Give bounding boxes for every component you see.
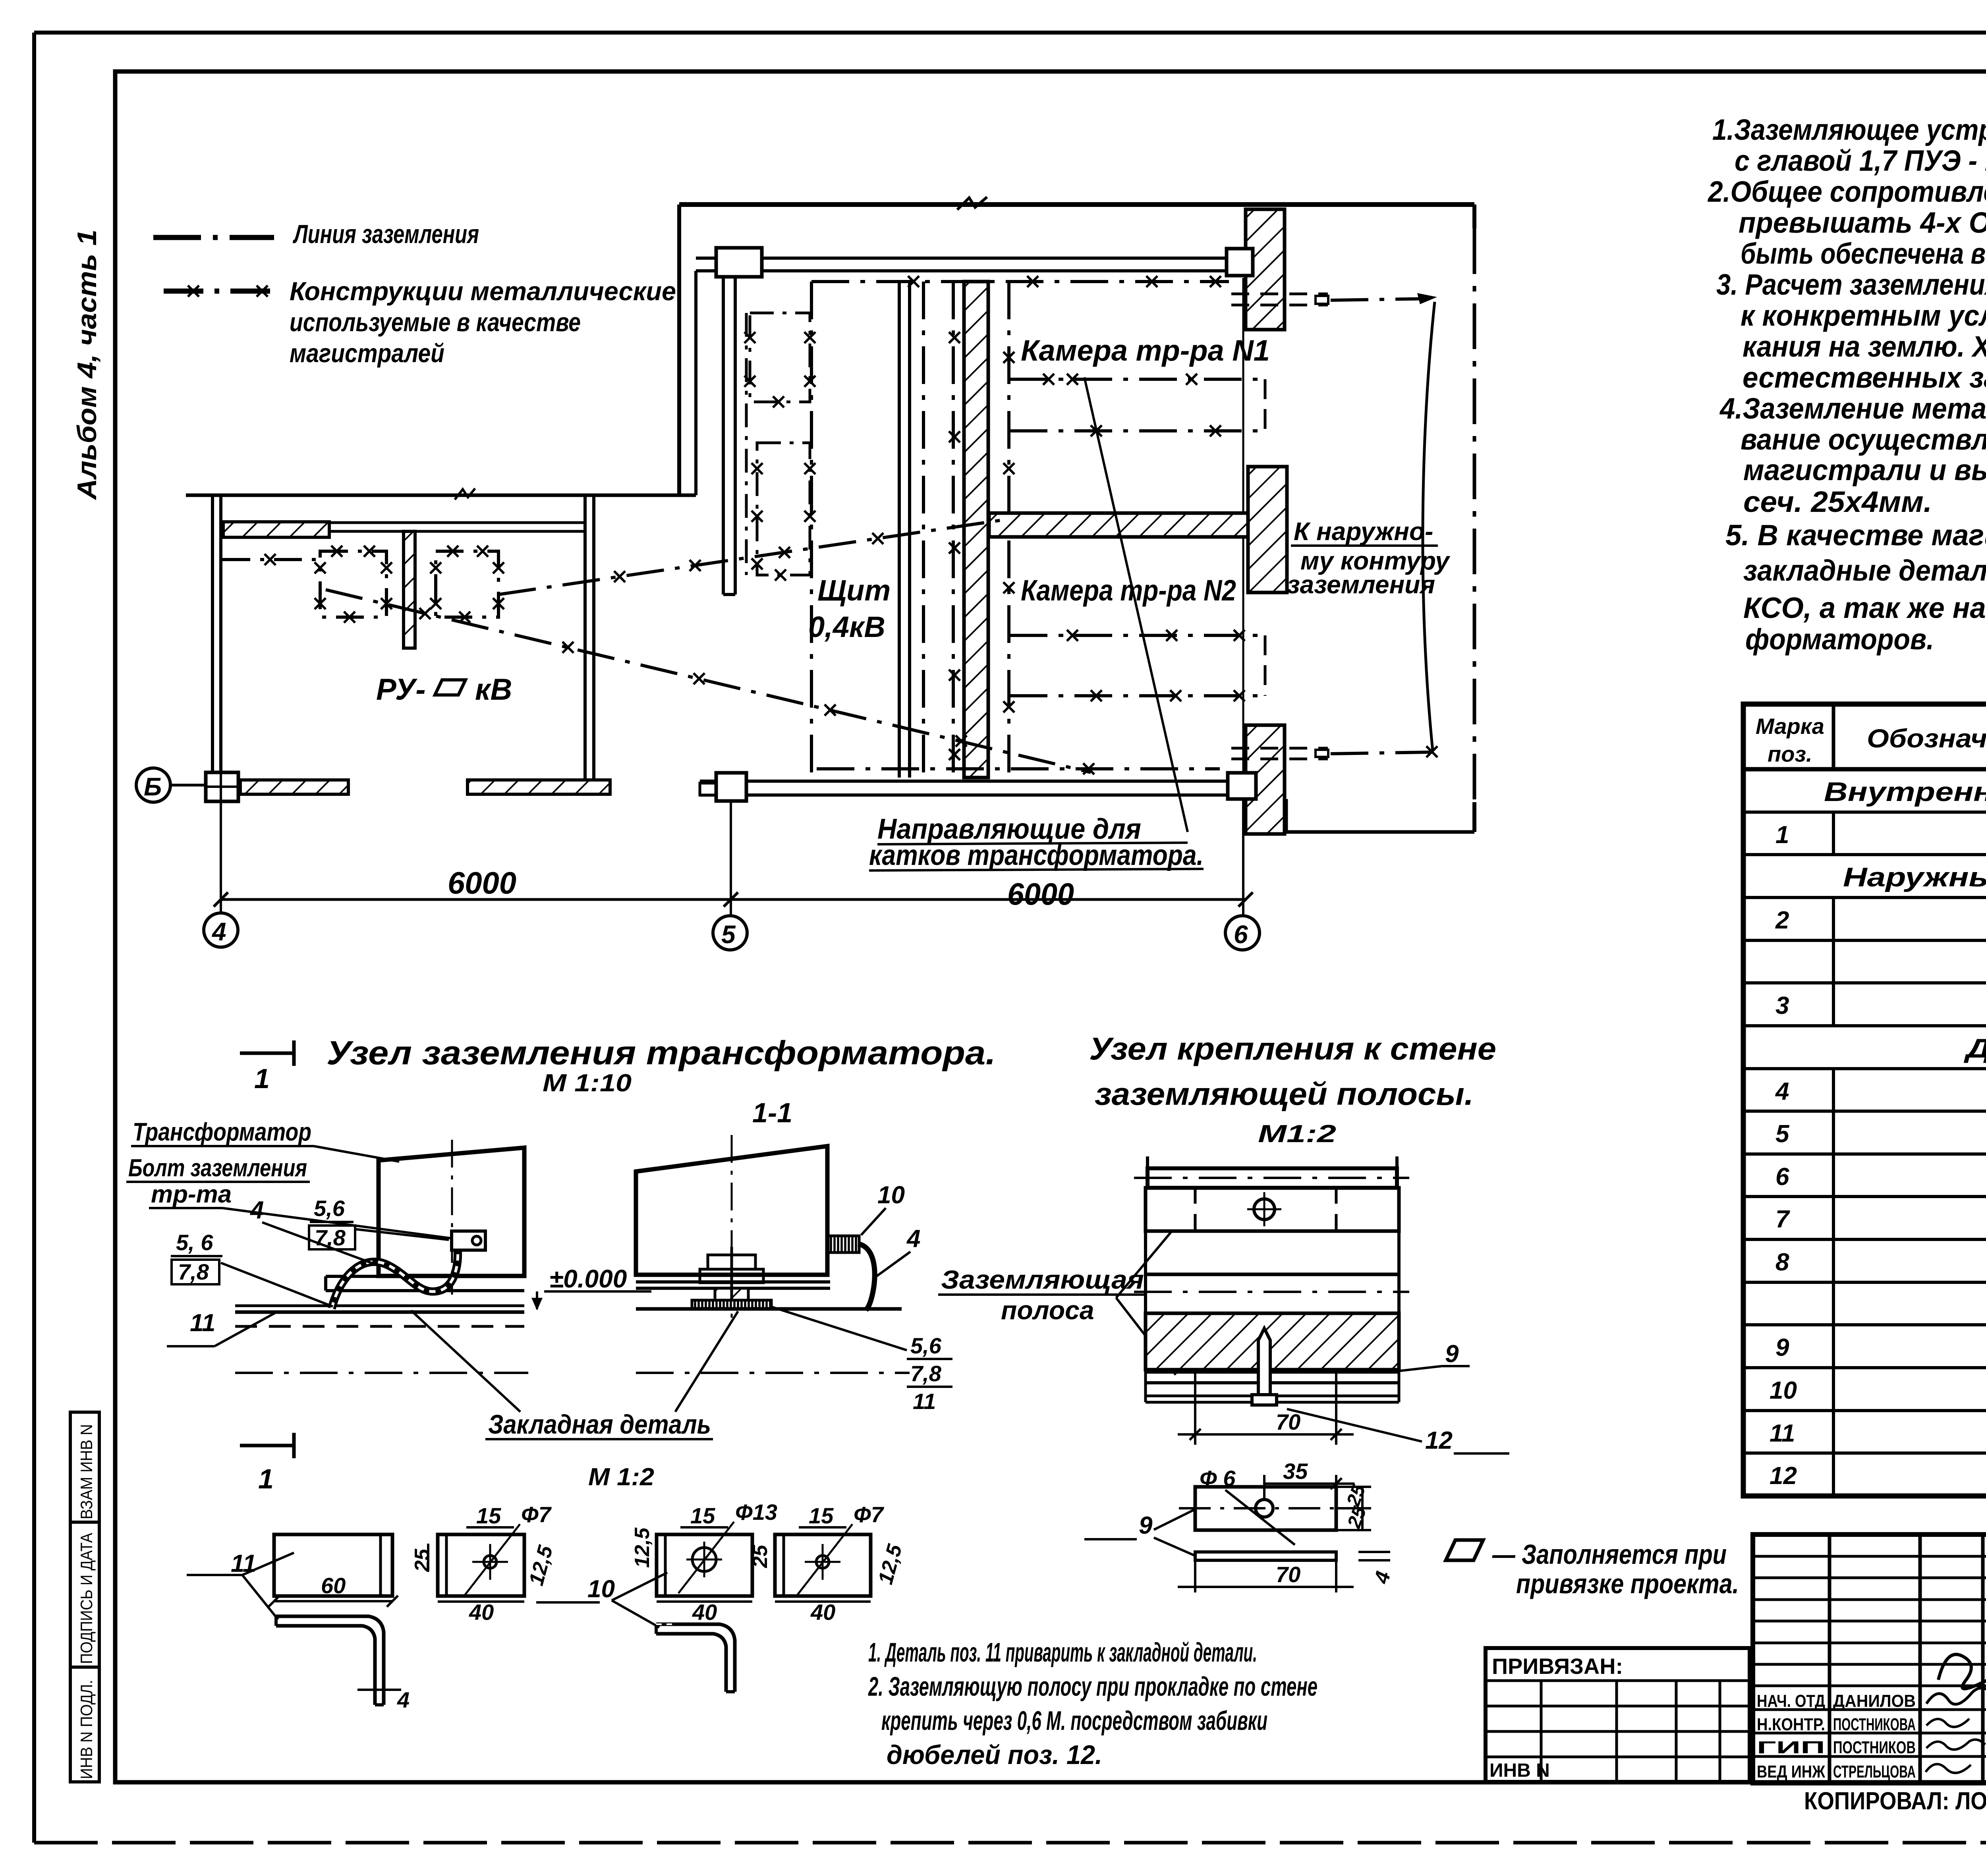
axis 4 line [220,801,222,913]
anchor assembly [692,1247,771,1310]
left room center hatched column [404,531,415,648]
svg-text:используемые в качестве: используемые в качестве [290,307,581,337]
dim 70 upper [1194,1372,1196,1445]
svg-text:сеч. 25х4мм.: сеч. 25х4мм. [1743,485,1932,518]
transformer body left [379,1148,524,1276]
fill-in legend symbol [1446,1540,1483,1560]
pilaster axis5 bottom [716,773,746,801]
svg-text:11: 11 [190,1309,215,1337]
left room top wall [186,494,696,497]
RU cell 2 dashed [436,551,498,617]
svg-text:к конкретным условиям с учетом: к конкретным условиям с учетом данных о … [1741,299,1986,332]
svg-text:5,6: 5,6 [314,1196,345,1221]
svg-text:6: 6 [1775,1163,1789,1191]
svg-text:М 1:10: М 1:10 [543,1069,632,1097]
svg-text:Узел крепления к стене: Узел крепления к стене [1089,1031,1496,1066]
svg-text:0,4кВ: 0,4кВ [808,610,885,643]
left room left wall [211,495,214,772]
section mark bottom [240,1444,294,1448]
svg-text:СТРЕЛЬЦОВА: СТРЕЛЬЦОВА [1833,1762,1916,1781]
svg-text:15: 15 [809,1503,834,1528]
axis B bubble [136,768,170,802]
transformer body section [636,1146,827,1275]
svg-text:15: 15 [476,1503,501,1528]
dim 70 lower [1194,1560,1196,1592]
top branch dashed pair [1231,293,1328,295]
svg-text:превышать 4-х Ом. Требуемое со: превышать 4-х Ом. Требуемое сопротивлени… [1739,206,1986,239]
part11 plate [274,1534,392,1596]
svg-text:с главой 1,7 ПУЭ - 1985г.: с главой 1,7 ПУЭ - 1985г. [1735,144,1986,177]
grounding line along bottom wall [817,767,1220,770]
margin strip [70,1412,99,1782]
wall top interior [696,257,1227,260]
RU cell 1 dashed [320,551,386,617]
svg-text:7: 7 [1775,1206,1790,1233]
connector to outer contour [1423,302,1435,751]
big signature [1938,1654,1986,1689]
embedded strip dashed [235,1325,524,1328]
part10 bent strap [656,1624,735,1692]
svg-text:4: 4 [249,1197,264,1224]
svg-text:12: 12 [1770,1462,1797,1490]
svg-text:1.Заземляющее устройство выпол: 1.Заземляющее устройство выполняется в с… [1712,113,1986,146]
svg-text:Щит: Щит [817,574,891,607]
schit room left dashdot [810,282,813,778]
svg-text:поз.: поз. [1768,741,1812,766]
svg-text:4: 4 [1775,1078,1789,1105]
svg-text:М 1:2: М 1:2 [588,1463,654,1491]
svg-text:10: 10 [877,1181,905,1209]
svg-text:Трансформатор: Трансформатор [133,1117,311,1146]
svg-text:12: 12 [1425,1427,1453,1454]
grounding diagonal lower [326,590,1091,772]
svg-text:ДАНИЛОВ: ДАНИЛОВ [1833,1691,1916,1711]
axis 5 line [730,801,732,916]
top branch dashdot [1331,299,1430,300]
axis B line [171,784,206,787]
left room inner top double [329,521,586,524]
svg-text:1-1: 1-1 [752,1097,792,1128]
bottom branch dashed pair [1231,747,1328,750]
pilaster axis6 top hatched [1246,209,1285,330]
svg-text:1: 1 [258,1463,274,1494]
svg-text:5,6: 5,6 [910,1333,942,1358]
wall bottom exterior double [700,780,1230,783]
grounding stub to left wall [222,558,320,561]
svg-text:Внутренний контур заземления: Внутренний контур заземления. [1824,777,1986,807]
svg-text:— Заполняется при: — Заполняется при [1492,1539,1727,1570]
axis 6 line [1242,278,1244,773]
wall stub below pilaster5 [722,277,725,594]
transformer centerline right [731,1135,733,1318]
ground surface right [636,1307,902,1311]
hatched mid pier block [1248,467,1287,593]
privyazan table [1486,1648,1750,1782]
svg-text:9: 9 [1775,1334,1789,1361]
left room hatched wall strip [223,522,329,537]
svg-text:Альбом 4, часть 1: Альбом 4, часть 1 [72,230,102,500]
part9 centerline [1179,1507,1358,1509]
svg-text:быть обеспечена в любое время: быть обеспечена в любое время года. [1741,237,1986,270]
general notes block [1707,113,1986,656]
svg-text:Болт заземления: Болт заземления [128,1154,307,1182]
svg-text:7,8: 7,8 [910,1361,942,1386]
svg-text:магистрали и выполняется полос: магистрали и выполняется полосовой сталь… [1743,454,1986,486]
svg-text:Закладная деталь: Закладная деталь [488,1409,711,1440]
break mark left room wall [455,488,475,500]
strap to floor right [858,1244,875,1310]
svg-text:1: 1 [254,1063,270,1094]
svg-text:9: 9 [1445,1340,1459,1368]
hatched partition wall vertical [964,282,988,778]
dashdot right of partition [1007,282,1010,778]
wall top exterior [679,202,1474,207]
svg-text:НАЧ. ОТД: НАЧ. ОТД [1757,1691,1825,1711]
svg-text:60: 60 [321,1573,346,1598]
svg-text:ИНВ N: ИНВ N [1489,1760,1550,1781]
legend metal structures sample [164,289,275,294]
pilaster axis6 bottom square [1228,773,1256,799]
floor centerline right [636,1372,910,1374]
svg-text:40: 40 [469,1600,494,1625]
svg-text:25: 25 [749,1544,772,1568]
outer border top [34,31,1986,35]
svg-text:4: 4 [397,1687,410,1712]
svg-text:5, 6: 5, 6 [176,1230,213,1255]
svg-text:закладные детали для установки: закладные детали для установки панелей щ… [1743,554,1986,587]
legend grounding line sample [153,235,274,240]
svg-text:7,8: 7,8 [178,1259,209,1284]
chamber1 rail bottom [1010,429,1265,432]
pilaster axis6 top square [1227,249,1253,276]
chamber2 rail bottom [1010,694,1265,697]
break mark top wall [957,197,987,210]
svg-text:форматоров.: форматоров. [1745,623,1934,656]
top bar [1148,1168,1397,1188]
wall bottom stub left [700,783,718,795]
section mark top [240,1052,294,1055]
svg-text:11: 11 [1770,1420,1795,1447]
svg-text:1. Деталь поз. 11 приварить к: 1. Деталь поз. 11 приварить к закладной … [868,1637,1257,1668]
svg-text:Ф7: Ф7 [854,1502,885,1527]
svg-text:6000: 6000 [1007,876,1074,911]
svg-text:полоса: полоса [1001,1295,1094,1325]
svg-text:40: 40 [810,1600,835,1625]
svg-text:ГИП: ГИП [1757,1738,1825,1757]
base bar right [636,1280,830,1283]
part11 bent strap [276,1616,384,1705]
panel connecting dashdot [745,313,748,575]
svg-text:Конструкции металлические: Конструкции металлические [290,276,676,306]
svg-text:Узел заземления трансформатора: Узел заземления трансформатора. [326,1034,996,1071]
svg-text:Ф13: Ф13 [735,1500,777,1525]
left room bottom hatched strip west [240,780,348,794]
panel box dashed lower [757,443,810,575]
part9 hole [1256,1500,1273,1517]
svg-text:КСО, а так же направляющие для: КСО, а так же направляющие для катков тр… [1743,591,1986,624]
dimension line [221,898,1246,901]
svg-text:10: 10 [1770,1377,1797,1404]
axis 6 bubble [1225,916,1260,950]
svg-text:Камера тр-ра N1: Камера тр-ра N1 [1021,334,1270,367]
svg-text:ВЗАМ ИНВ N: ВЗАМ ИНВ N [77,1424,96,1519]
outer border bottom [34,1841,1986,1845]
svg-text:М1:2: М1:2 [1258,1120,1336,1148]
svg-text:25: 25 [411,1548,434,1572]
band C lines [1146,1273,1399,1276]
axis4 column square [206,772,238,801]
svg-text:6000: 6000 [448,865,516,900]
svg-text:Заземляющая: Заземляющая [941,1265,1144,1294]
svg-text:катков трансформатора.: катков трансформатора. [869,840,1204,871]
schit dashdot vertical a [952,282,955,778]
chamber1 rail right [1264,379,1267,431]
svg-text:1: 1 [1775,821,1789,849]
svg-text:ПОСТНИКОВ: ПОСТНИКОВ [1833,1738,1916,1757]
svg-text:8: 8 [1775,1249,1789,1276]
left room bottom hatched strip east [468,780,610,794]
svg-text:11: 11 [913,1389,936,1414]
svg-text:5. В качестве магистралей зазе: 5. В качестве магистралей заземления исп… [1725,519,1986,552]
wall bottom niche [1286,830,1474,834]
svg-text:Линия заземления: Линия заземления [293,219,479,249]
svg-text:5: 5 [721,920,736,949]
axis 5 bubble [713,916,747,950]
chamber2 rail top [1010,634,1265,637]
svg-text:7,8: 7,8 [315,1225,346,1250]
svg-text:3: 3 [1775,992,1789,1019]
transformer centerline left [451,1140,453,1295]
base channel left [326,1275,524,1278]
pilaster axis5 top [716,248,762,277]
dim 4 strip [1358,1551,1390,1553]
svg-text:40: 40 [692,1600,717,1625]
ground surface left [235,1305,524,1307]
rail guides leader [1084,377,1188,832]
top bar centerline [1134,1177,1409,1179]
dims 25 25 [1336,1486,1371,1488]
svg-text:Ф7: Ф7 [521,1502,552,1527]
svg-text:2: 2 [1775,907,1789,934]
svg-text:4: 4 [211,917,226,946]
svg-text:тр-та: тр-та [151,1181,232,1208]
svg-text:Детали заземления: Детали заземления [1964,1033,1986,1063]
svg-text:магистралей: магистралей [290,338,444,368]
grounding bolt plate [452,1231,485,1250]
svg-text:ПРИВЯЗАН:: ПРИВЯЗАН: [1492,1654,1623,1679]
hatched wall band [1146,1313,1399,1370]
schit panel row double wall [898,282,901,778]
band C centerline [1134,1291,1409,1293]
flexible grounding strap [332,1244,458,1309]
svg-text:4: 4 [906,1225,920,1253]
hole circle [1254,1199,1275,1220]
grounding pad hatched [828,1236,859,1253]
svg-text:вание осуществляется ответвлен: вание осуществляется ответвлениями от ос… [1741,423,1986,456]
svg-text:Камера тр-ра N2: Камера тр-ра N2 [1021,574,1236,607]
svg-text:кания на землю. Характеристики: кания на землю. Характеристики грунта и … [1743,330,1986,363]
svg-text:Б: Б [144,772,162,801]
svg-text:2. Заземляющую полосу при прок: 2. Заземляющую полосу при прокладке по с… [868,1671,1318,1702]
pilaster axis6 bottom hatched [1246,725,1285,834]
svg-text:2.Общее сопротивление заземляю: 2.Общее сопротивление заземляющега конту… [1707,175,1986,208]
svg-text:ИНВ N ПОДЛ.: ИНВ N ПОДЛ. [77,1680,96,1779]
svg-text:Марка: Марка [1756,714,1824,739]
schit dashdot vertical pre [922,282,925,778]
signatures [1926,1688,1986,1704]
svg-text:3. Расчет заземления уточняетс: 3. Расчет заземления уточняется при прив… [1716,268,1986,301]
left room right wall [583,496,587,782]
grounding diagonal upper [498,520,1001,594]
wall left of substation [677,205,681,495]
svg-text:70: 70 [1276,1562,1300,1587]
part9 strip side [1195,1552,1336,1560]
svg-text:±0.000: ±0.000 [549,1264,627,1293]
svg-text:заземляющей полосы.: заземляющей полосы. [1095,1076,1474,1112]
wall right dashdot [1472,205,1476,228]
svg-text:ВЕД ИНЖ: ВЕД ИНЖ [1757,1762,1825,1781]
part7hole plate a [438,1534,524,1596]
floor centerline left [235,1372,528,1374]
svg-text:дюбелей поз. 12.: дюбелей поз. 12. [887,1740,1102,1770]
top branch arrow [1417,293,1437,304]
svg-text:ПОДПИСЬ И ДАТА: ПОДПИСЬ И ДАТА [77,1533,96,1664]
svg-text:крепить через 0,6 М. посредств: крепить через 0,6 М. посредством забивки [881,1706,1267,1736]
svg-text:привязке проекта.: привязке проекта. [1516,1568,1739,1599]
svg-text:Ф 6: Ф 6 [1200,1466,1236,1491]
svg-text:Обозначение: Обозначение [1867,724,1986,753]
svg-text:15: 15 [690,1503,715,1528]
part7hole plate b [775,1534,871,1596]
svg-text:Н.КОНТР.: Н.КОНТР. [1757,1715,1825,1734]
svg-text:естественных заземлителей.: естественных заземлителей. [1743,361,1986,394]
chamber2 rail right [1264,635,1267,696]
svg-text:12,5: 12,5 [631,1527,654,1568]
panel box dashed upper [750,313,810,402]
hatched mid wall horizontal [989,513,1248,537]
axis 4 bubble [204,913,238,947]
svg-text:70: 70 [1276,1409,1300,1434]
part9 plate [1195,1487,1336,1530]
svg-text:5: 5 [1775,1120,1790,1148]
svg-text:Наружный контур заземления: Наружный контур заземления [1843,862,1986,892]
svg-text:К наружно-: К наружно- [1294,517,1433,546]
band B [1146,1188,1399,1231]
svg-text:заземления: заземления [1287,570,1435,599]
outer border left [32,33,36,1843]
svg-text:РУ-: РУ- [376,673,426,706]
svg-text:35: 35 [1283,1459,1308,1484]
svg-text:КОПИРОВАЛ: ЛОГИНОВА: КОПИРОВАЛ: ЛОГИНОВА [1804,1787,1986,1815]
svg-text:ПОСТНИКОВА: ПОСТНИКОВА [1833,1715,1916,1734]
grounding line along top wall [811,280,1229,283]
strips below [1146,1370,1399,1374]
chamber1 rail top [1010,378,1265,381]
svg-text:10: 10 [587,1575,615,1603]
svg-text:кВ: кВ [475,673,512,706]
bottom branch dashdot [1331,752,1430,754]
svg-text:6: 6 [1234,920,1248,949]
dowel [1258,1328,1270,1395]
part13hole plate [657,1534,752,1596]
svg-text:4.Заземление металлоконструкци: 4.Заземление металлоконструкций под элек… [1719,392,1986,425]
svg-text:9: 9 [1139,1512,1153,1539]
part11 strap dim4 [357,1689,401,1691]
